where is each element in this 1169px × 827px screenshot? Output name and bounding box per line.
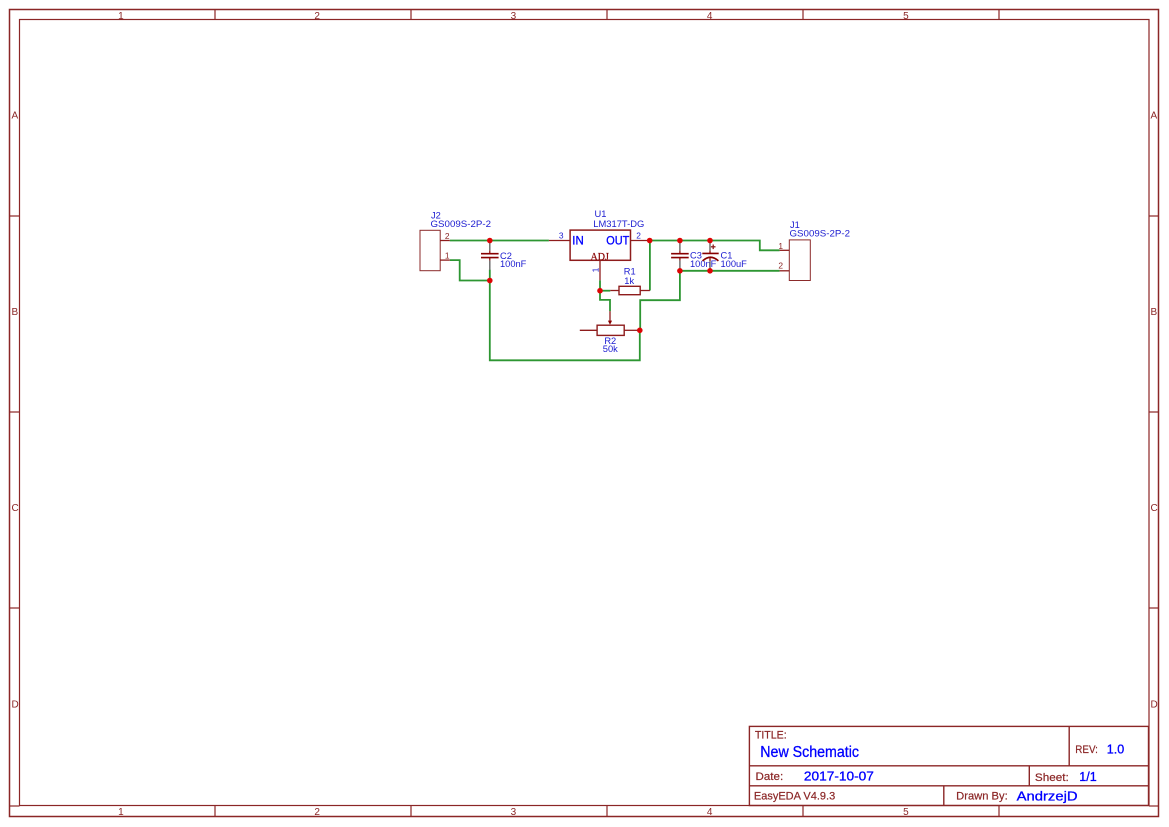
connector J2 bbox=[420, 230, 440, 270]
svg-text:50k: 50k bbox=[603, 344, 618, 354]
junction node R2 right bbox=[637, 328, 643, 334]
svg-text:LM317T-DG: LM317T-DG bbox=[593, 219, 644, 229]
wire ADJ node to R2 wiper bbox=[600, 291, 610, 312]
svg-text:TITLE:: TITLE: bbox=[755, 729, 787, 741]
regulator U1 bbox=[570, 230, 630, 260]
svg-text:A: A bbox=[12, 111, 19, 122]
svg-text:Drawn By:: Drawn By: bbox=[956, 790, 1008, 802]
svg-text:C: C bbox=[12, 503, 19, 514]
row tick marks right bbox=[1149, 216, 1159, 608]
J2 pin 2 stub bbox=[440, 240, 450, 242]
svg-text:100nF: 100nF bbox=[500, 259, 527, 269]
svg-text:OUT: OUT bbox=[606, 236, 629, 248]
svg-text:5: 5 bbox=[903, 11, 909, 22]
connector J1 bbox=[789, 240, 810, 281]
svg-text:AndrzejD: AndrzejD bbox=[1017, 789, 1078, 804]
R2 wiper arrowhead bbox=[608, 321, 612, 325]
svg-text:2017-10-07: 2017-10-07 bbox=[804, 769, 874, 783]
column tick marks bottom bbox=[215, 806, 999, 817]
svg-text:1: 1 bbox=[445, 251, 450, 261]
svg-text:B: B bbox=[12, 307, 19, 318]
svg-text:1: 1 bbox=[591, 267, 601, 272]
svg-text:U1: U1 bbox=[595, 209, 607, 219]
U1 pin 2 stub bbox=[631, 240, 650, 242]
svg-text:3: 3 bbox=[511, 11, 517, 22]
svg-text:1: 1 bbox=[778, 241, 783, 251]
wire OUT rail to J1.1 bbox=[650, 241, 780, 251]
junction node J2.2/C2 bbox=[487, 238, 493, 244]
svg-text:GS009S-2P-2: GS009S-2P-2 bbox=[790, 229, 851, 239]
svg-text:2: 2 bbox=[445, 231, 450, 241]
wire J2.1 to GND node bbox=[450, 260, 490, 280]
U1 pin 3 stub bbox=[549, 240, 570, 242]
junction node C1 bottom bbox=[707, 268, 713, 274]
wire R1 right up to OUT bbox=[649, 241, 651, 291]
svg-text:D: D bbox=[12, 699, 19, 710]
svg-text:B: B bbox=[1151, 307, 1158, 318]
svg-text:3: 3 bbox=[511, 807, 517, 818]
J1 pin 1 stub bbox=[780, 249, 790, 251]
R2 left lead bbox=[580, 329, 597, 331]
J1 pin 2 stub bbox=[780, 270, 790, 272]
row tick marks left bbox=[10, 216, 20, 608]
svg-text:1/1: 1/1 bbox=[1079, 770, 1096, 784]
junction node OUT/R1 bbox=[647, 238, 653, 244]
R2 right lead bbox=[624, 329, 640, 331]
R1 right lead bbox=[640, 290, 650, 292]
R2 wiper lead bbox=[609, 311, 611, 321]
svg-text:5: 5 bbox=[903, 807, 909, 818]
svg-text:Sheet:: Sheet: bbox=[1035, 772, 1069, 784]
svg-text:2: 2 bbox=[314, 807, 320, 818]
svg-text:C: C bbox=[1151, 503, 1158, 514]
R1 left lead bbox=[610, 290, 619, 292]
column numbers top bbox=[118, 11, 909, 22]
svg-text:REV:: REV: bbox=[1075, 744, 1098, 756]
svg-text:EasyEDA V4.9.3: EasyEDA V4.9.3 bbox=[754, 790, 835, 802]
svg-text:ADJ: ADJ bbox=[591, 252, 609, 263]
svg-text:1k: 1k bbox=[624, 276, 634, 286]
wire node to R1 left bbox=[600, 290, 610, 292]
svg-text:3: 3 bbox=[559, 231, 564, 241]
row letters left bbox=[12, 111, 19, 711]
U1 ADJ pin stub bbox=[599, 260, 601, 280]
svg-text:4: 4 bbox=[707, 807, 713, 818]
capacitor C2 bbox=[481, 242, 499, 270]
svg-text:2: 2 bbox=[778, 261, 783, 271]
wire ADJ pin to node bbox=[599, 280, 601, 290]
svg-text:100uF: 100uF bbox=[721, 259, 748, 269]
row letters right bbox=[1151, 111, 1158, 711]
svg-text:1: 1 bbox=[118, 11, 124, 22]
capacitor C3 bbox=[671, 242, 689, 271]
column tick marks top bbox=[215, 10, 999, 20]
svg-text:2: 2 bbox=[636, 231, 641, 241]
svg-text:2: 2 bbox=[314, 11, 320, 22]
junction node C2 bottom bbox=[487, 278, 493, 284]
svg-text:1: 1 bbox=[118, 807, 124, 818]
junction node C3 top bbox=[677, 238, 683, 244]
svg-text:GS009S-2P-2: GS009S-2P-2 bbox=[431, 219, 492, 229]
wire J2.2 to U1.IN bbox=[450, 240, 549, 242]
svg-text:New Schematic: New Schematic bbox=[760, 744, 859, 761]
wire GND rail bottom bbox=[490, 281, 640, 361]
column numbers bottom bbox=[118, 807, 909, 818]
svg-text:IN: IN bbox=[572, 236, 584, 248]
bottom margin end stubs bbox=[10, 805, 1159, 807]
wire bottom right rail to J1.2 bbox=[680, 270, 780, 272]
wire C2 bottom stub bbox=[489, 270, 491, 281]
junction node C1 top bbox=[707, 238, 713, 244]
resistor R1 bbox=[619, 286, 640, 294]
wire C3 bottom to R2 node bbox=[640, 271, 680, 331]
svg-text:4: 4 bbox=[707, 11, 713, 22]
J2 pin 1 stub bbox=[440, 259, 450, 261]
svg-text:Date:: Date: bbox=[756, 771, 784, 783]
junction node C3 bottom bbox=[677, 268, 683, 274]
title block outline bbox=[749, 726, 1148, 805]
svg-text:D: D bbox=[1151, 699, 1158, 710]
junction node ADJ/R1 bbox=[597, 288, 603, 294]
capacitor C1 polarized bbox=[702, 242, 718, 271]
svg-text:A: A bbox=[1151, 111, 1158, 122]
svg-text:1.0: 1.0 bbox=[1107, 743, 1124, 757]
potentiometer R2 bbox=[597, 325, 624, 335]
